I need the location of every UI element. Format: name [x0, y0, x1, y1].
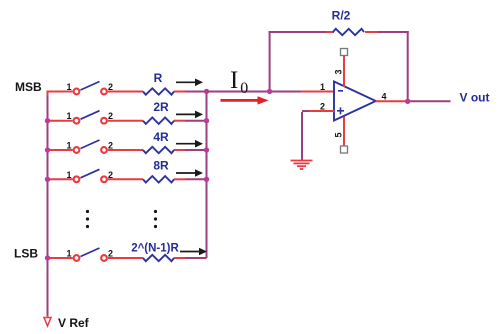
wire: left vertical bus V Ref: [47, 91, 49, 317]
op-amp minus sign: [338, 90, 343, 92]
pin label 5 (rotated): [334, 132, 344, 137]
switch S1 (MSB): [66, 82, 113, 95]
svg-text:1: 1: [66, 249, 71, 259]
current arrow (8R row): [176, 169, 203, 177]
wire: non-inverting input to ground: [302, 111, 335, 160]
junction dots on right bus: [204, 89, 209, 182]
ellipsis dots right column: [154, 210, 157, 228]
junction dots on left bus: [45, 118, 50, 261]
svg-text:1: 1: [66, 82, 71, 92]
pin label 3 (rotated): [334, 69, 344, 74]
value label 8R: [153, 159, 169, 173]
switch S5 (LSB): [66, 248, 113, 261]
output wire: [376, 100, 451, 102]
op-amp plus sign: [337, 107, 344, 114]
svg-text:2: 2: [108, 249, 113, 259]
svg-text:4R: 4R: [153, 130, 169, 144]
row 2R: wire segments: [48, 120, 207, 122]
row 8R: wire segments: [48, 178, 207, 180]
label LSB: [14, 247, 38, 261]
junction node at feedback/input: [267, 89, 272, 94]
row LSB: wire segments: [48, 257, 207, 259]
resistor R/2 (feedback): [333, 29, 364, 35]
switch S4: [66, 169, 113, 182]
current arrow (LSB row): [180, 248, 207, 256]
resistor 2^(N-1)R: [143, 255, 174, 261]
node I0: wire bus to op-amp inverting input: [207, 91, 335, 93]
label V Ref: [58, 316, 90, 330]
svg-text:1: 1: [320, 82, 325, 92]
svg-text:R/2: R/2: [332, 9, 351, 23]
svg-text:4: 4: [381, 92, 386, 102]
ground: [291, 161, 313, 170]
wire: right vertical bus to op-amp: [206, 92, 208, 259]
current arrow I0 (thick red): [221, 96, 269, 104]
row 4R: wire segments: [48, 149, 207, 151]
svg-text:1: 1: [66, 170, 71, 180]
current arrow (MSB row): [176, 79, 203, 87]
svg-text:8R: 8R: [153, 159, 169, 173]
current arrow (2R row): [176, 111, 203, 119]
label MSB: [15, 80, 42, 94]
svg-text:5: 5: [334, 132, 344, 137]
svg-text:0: 0: [240, 80, 248, 97]
value label 2^(N-1)R: [131, 243, 179, 255]
feedback loop wires: [269, 31, 409, 101]
label I0: [230, 67, 248, 97]
pin 3 terminal (V+): [341, 49, 348, 88]
pin 5 terminal (V-): [341, 117, 348, 154]
op-amp U1 triangle: [334, 82, 376, 121]
svg-text:1: 1: [66, 141, 71, 151]
svg-text:2: 2: [108, 82, 113, 92]
switch S2: [66, 111, 113, 124]
current arrow (4R row): [176, 140, 203, 148]
value label 4R: [153, 130, 169, 144]
ellipsis dots left column: [86, 210, 89, 228]
svg-text:V out: V out: [460, 91, 490, 105]
value label R: [154, 71, 163, 85]
junction node at output: [405, 99, 410, 104]
svg-text:LSB: LSB: [14, 247, 38, 261]
svg-text:V Ref: V Ref: [58, 316, 90, 330]
pin label 1: [320, 82, 325, 92]
svg-text:2: 2: [108, 170, 113, 180]
resistor 2R: [143, 118, 174, 124]
switch S3: [66, 140, 113, 153]
svg-text:2: 2: [108, 141, 113, 151]
resistor 4R: [143, 147, 174, 153]
resistor R (MSB row): [143, 88, 174, 94]
svg-text:3: 3: [334, 69, 344, 74]
label V out: [460, 91, 490, 105]
V Ref arrow: [44, 318, 51, 327]
resistor 8R: [143, 176, 174, 182]
pin label 4: [381, 92, 386, 102]
svg-text:2R: 2R: [153, 100, 169, 114]
svg-text:R: R: [154, 71, 163, 85]
pin label 2: [320, 102, 325, 112]
svg-text:1: 1: [66, 111, 71, 121]
svg-text:2: 2: [108, 111, 113, 121]
value label R/2: [332, 9, 351, 23]
value label 2R: [153, 100, 169, 114]
row MSB: wire segments: [47, 91, 207, 93]
svg-text:I: I: [230, 67, 238, 94]
svg-text:MSB: MSB: [15, 80, 42, 94]
svg-text:2^(N-1)R: 2^(N-1)R: [131, 243, 179, 255]
